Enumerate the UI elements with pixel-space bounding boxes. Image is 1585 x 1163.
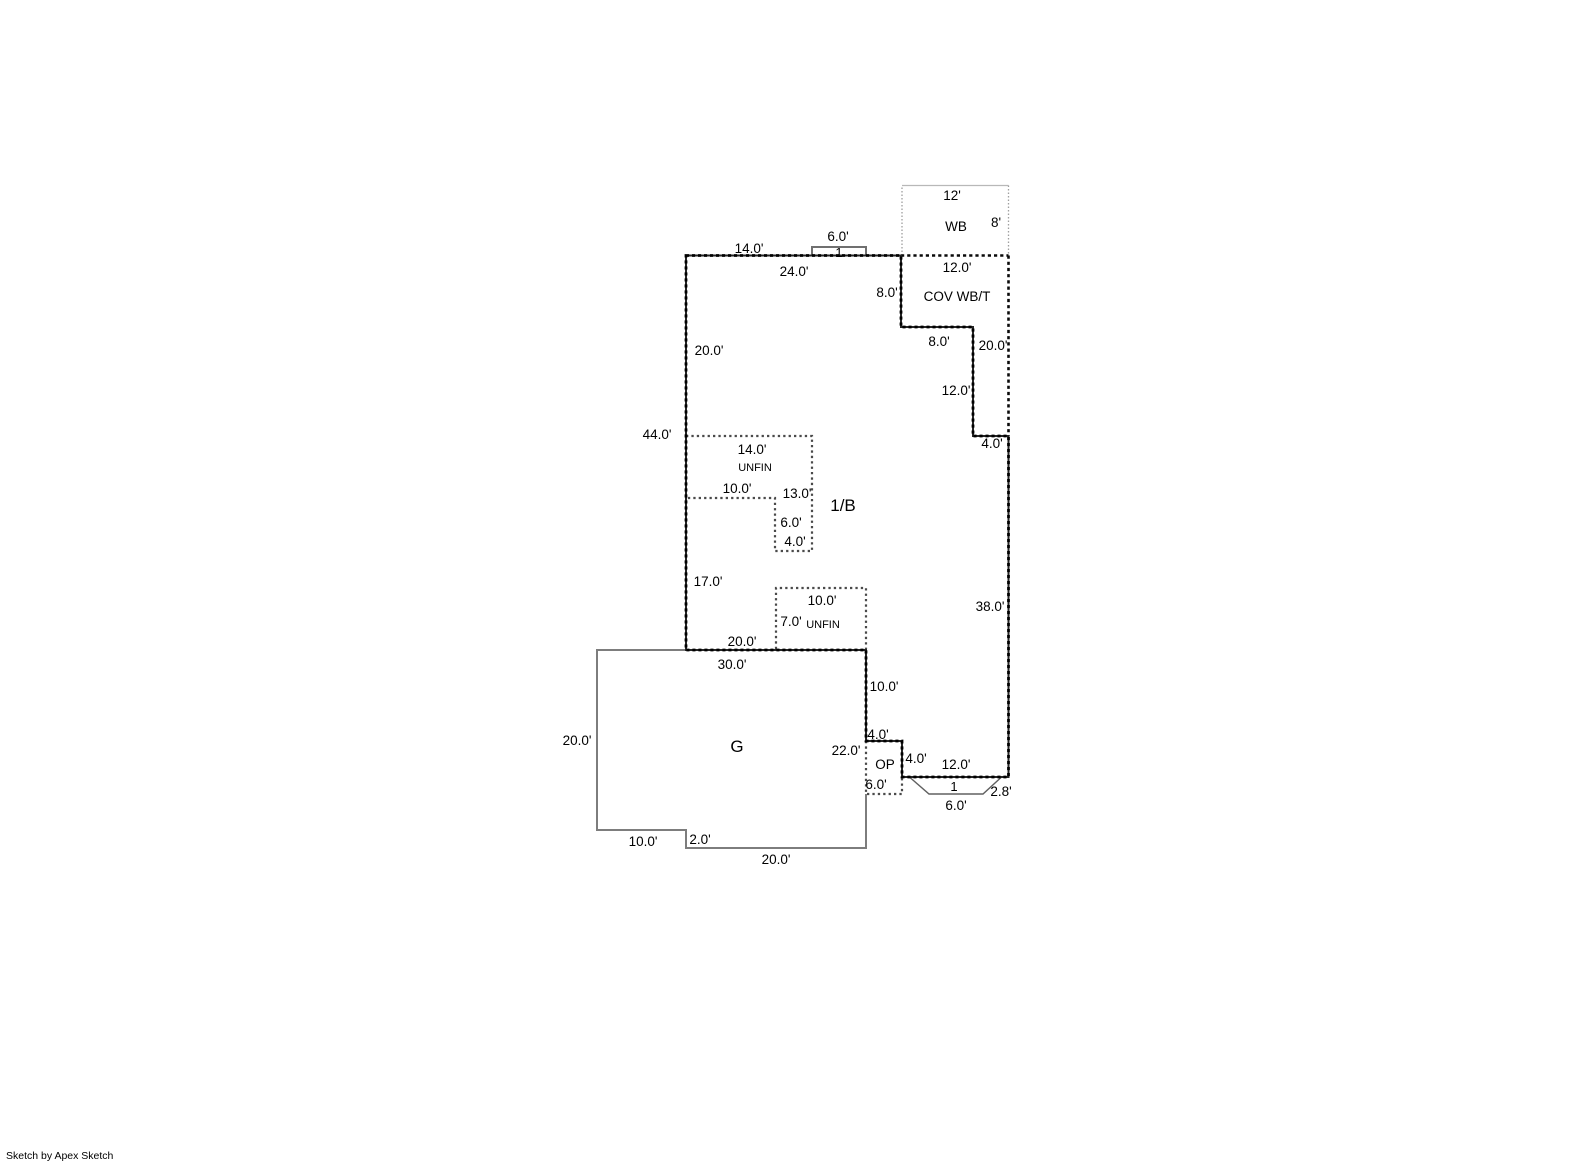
svg-text:4.0': 4.0' bbox=[784, 534, 805, 549]
UNFIN basement area 1 dotted L-shape bbox=[686, 436, 812, 551]
svg-text:44.0': 44.0' bbox=[643, 427, 672, 442]
svg-text:1: 1 bbox=[950, 779, 957, 794]
svg-text:8.0': 8.0' bbox=[876, 285, 897, 300]
svg-text:12.0': 12.0' bbox=[942, 383, 971, 398]
svg-text:UNFIN: UNFIN bbox=[738, 462, 772, 474]
svg-text:24.0': 24.0' bbox=[780, 264, 809, 279]
svg-text:6.0': 6.0' bbox=[945, 798, 966, 813]
svg-text:4.0': 4.0' bbox=[981, 436, 1002, 451]
svg-text:Sketch by Apex Sketch: Sketch by Apex Sketch bbox=[6, 1150, 114, 1162]
COV WB/T dashed outline right bbox=[1007, 256, 1010, 437]
svg-text:20.0': 20.0' bbox=[762, 852, 791, 867]
porch stoop rect top bbox=[812, 247, 866, 256]
svg-text:12.0': 12.0' bbox=[943, 260, 972, 275]
svg-text:20.0': 20.0' bbox=[979, 338, 1008, 353]
svg-text:30.0': 30.0' bbox=[718, 657, 747, 672]
svg-text:12': 12' bbox=[943, 188, 961, 203]
svg-text:UNFIN: UNFIN bbox=[806, 619, 840, 631]
svg-text:G: G bbox=[730, 737, 743, 756]
svg-text:10.0': 10.0' bbox=[808, 593, 837, 608]
OP open porch dotted box bbox=[866, 741, 902, 794]
svg-text:7.0': 7.0' bbox=[780, 614, 801, 629]
main house outline solid base bbox=[686, 256, 1009, 778]
svg-text:6.0': 6.0' bbox=[827, 229, 848, 244]
svg-text:14.0': 14.0' bbox=[738, 442, 767, 457]
svg-text:8.0': 8.0' bbox=[928, 334, 949, 349]
svg-text:10.0': 10.0' bbox=[629, 834, 658, 849]
svg-text:OP: OP bbox=[875, 757, 895, 772]
UNFIN basement area 2 dotted box bbox=[776, 588, 866, 649]
svg-text:1: 1 bbox=[835, 245, 842, 260]
svg-text:6.0': 6.0' bbox=[780, 515, 801, 530]
svg-text:2.0': 2.0' bbox=[689, 832, 710, 847]
svg-text:WB: WB bbox=[945, 219, 967, 234]
svg-text:20.0': 20.0' bbox=[695, 343, 724, 358]
svg-text:8': 8' bbox=[991, 215, 1001, 230]
svg-text:13.0': 13.0' bbox=[783, 486, 812, 501]
svg-text:4.0': 4.0' bbox=[867, 727, 888, 742]
svg-text:20.0': 20.0' bbox=[728, 634, 757, 649]
svg-text:1/B: 1/B bbox=[830, 496, 856, 515]
WB dotted box bbox=[902, 185, 1009, 187]
svg-text:22.0': 22.0' bbox=[832, 743, 861, 758]
svg-text:14.0': 14.0' bbox=[735, 241, 764, 256]
svg-text:38.0': 38.0' bbox=[976, 599, 1005, 614]
svg-text:10.0': 10.0' bbox=[723, 481, 752, 496]
svg-text:10.0': 10.0' bbox=[870, 679, 899, 694]
COV WB/T dashed outline top bbox=[901, 254, 1009, 257]
bay window trapezoid bottom-right bbox=[910, 778, 1001, 795]
garage G outline bbox=[597, 650, 866, 848]
svg-text:20.0': 20.0' bbox=[563, 733, 592, 748]
svg-text:2.8': 2.8' bbox=[990, 784, 1011, 799]
svg-text:4.0': 4.0' bbox=[905, 751, 926, 766]
svg-text:17.0': 17.0' bbox=[694, 574, 723, 589]
svg-text:12.0': 12.0' bbox=[942, 757, 971, 772]
main house outline dash texture bbox=[686, 256, 1009, 778]
svg-text:COV WB/T: COV WB/T bbox=[924, 289, 991, 304]
svg-text:6.0': 6.0' bbox=[865, 777, 886, 792]
